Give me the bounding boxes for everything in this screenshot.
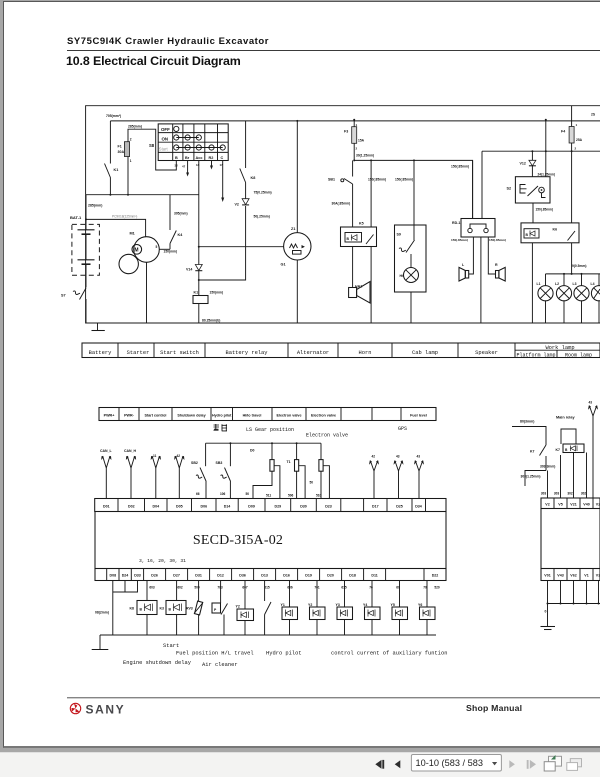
antenna 43 a (394, 455, 404, 499)
lamp L3 (573, 274, 590, 323)
svg-text:5: 5 (156, 245, 158, 249)
wire battery to starter (85, 212, 188, 237)
ground top section (92, 323, 105, 331)
switch box S2 (507, 177, 554, 223)
switch K1 (105, 121, 119, 195)
svg-text:D30: D30 (300, 505, 307, 509)
relay coil loop main relay (561, 429, 576, 444)
wire left return (95, 581, 138, 636)
solenoid Y3 (336, 581, 353, 636)
svg-text:30A(.85mm): 30A(.85mm) (332, 202, 351, 206)
svg-text:Shutdown delay: Shutdown delay (177, 413, 206, 417)
svg-text:C: C (221, 156, 224, 160)
svg-text:11: 11 (153, 454, 157, 458)
switch K8 (240, 121, 272, 195)
svg-text:285(mm): 285(mm) (88, 204, 102, 208)
antenna 11 (151, 454, 161, 499)
svg-text:Hydro pilot: Hydro pilot (266, 651, 302, 657)
solenoid Y6 (418, 581, 435, 636)
svg-text:K5: K5 (359, 222, 364, 226)
svg-text:15A: 15A (358, 139, 365, 143)
horn HA1 (349, 282, 370, 304)
svg-text:CAN_L: CAN_L (100, 449, 113, 453)
svg-text:Start control: Start control (145, 413, 167, 417)
svg-text:150(mm): 150(mm) (210, 291, 224, 295)
svg-text:CAN_H: CAN_H (124, 449, 137, 453)
solenoid Y4 (363, 581, 380, 636)
speaker R (488, 237, 506, 281)
svg-text:303: 303 (541, 492, 547, 496)
wire S8 C pin arrow (221, 161, 224, 203)
connector row top of SECD (95, 499, 446, 512)
wire horizontal 160 (353, 159, 472, 218)
svg-text:L4: L4 (591, 282, 595, 286)
relay K3 (160, 581, 187, 636)
svg-text:Cab lamp: Cab lamp (412, 350, 438, 356)
svg-text:Fuel level: Fuel level (410, 413, 427, 417)
starter motor M1 (119, 232, 177, 324)
svg-text:PWR-: PWR- (124, 413, 135, 417)
svg-text:K1: K1 (114, 168, 119, 172)
wire S8 Acc line (198, 161, 200, 265)
wire horizontal 151 (482, 150, 600, 152)
svg-text:V2: V2 (596, 503, 600, 507)
svg-text:D01: D01 (103, 505, 110, 509)
svg-text:D16: D16 (283, 574, 290, 578)
fuse F3 (344, 119, 374, 161)
resistor divider 3 (310, 443, 330, 498)
svg-text:Y1: Y1 (281, 603, 285, 607)
svg-text:RD-1: RD-1 (452, 221, 460, 225)
svg-text:V12: V12 (520, 162, 526, 166)
svg-text:SECD-3I5A-02: SECD-3I5A-02 (193, 533, 283, 548)
fuse F4 (561, 106, 596, 223)
svg-text:32: 32 (175, 164, 179, 168)
svg-text:3, 16, 20, 30, 31: 3, 16, 20, 30, 31 (139, 558, 186, 564)
svg-text:150(.85mm): 150(.85mm) (489, 238, 506, 242)
SANY logo emblem (70, 703, 80, 713)
svg-text:D26: D26 (151, 574, 158, 578)
svg-text:L: L (462, 263, 465, 267)
diode box K7 (556, 444, 585, 453)
svg-text:D24: D24 (122, 574, 129, 578)
wire S8 Br pin arrow (186, 161, 189, 177)
lamp L1 (537, 274, 554, 323)
svg-text:25A: 25A (576, 138, 583, 142)
svg-text:B: B (140, 608, 143, 612)
svg-text:30(1.25mm): 30(1.25mm) (356, 154, 374, 158)
node CJK quick-change label (214, 424, 228, 431)
svg-text:150(.85mm): 150(.85mm) (451, 165, 469, 169)
svg-text:43: 43 (417, 455, 421, 459)
svg-text:50: 50 (246, 492, 250, 496)
svg-text:24(1.25mm): 24(1.25mm) (538, 173, 556, 177)
antenna 42 (174, 454, 184, 499)
svg-text:305(mm): 305(mm) (174, 212, 188, 216)
svg-text:Y2: Y2 (236, 605, 240, 609)
diode V2 (235, 183, 270, 219)
svg-text:V40: V40 (583, 503, 589, 507)
svg-text:Start switch: Start switch (160, 350, 199, 356)
svg-text:Horn: Horn (359, 350, 372, 356)
svg-text:Y3: Y3 (336, 603, 340, 607)
svg-text:42: 42 (372, 455, 376, 459)
svg-text:D19: D19 (305, 574, 312, 578)
connector row bottom of V block (541, 569, 600, 581)
svg-text:K7: K7 (530, 450, 535, 454)
svg-text:S8: S8 (149, 143, 155, 148)
svg-text:V01: V01 (544, 574, 550, 578)
svg-text:Start: Start (159, 147, 169, 152)
svg-text:70: 70 (423, 586, 427, 590)
svg-text:D02: D02 (128, 505, 135, 509)
svg-text:V5: V5 (558, 503, 562, 507)
svg-text:43: 43 (396, 455, 400, 459)
node V pin numbers (541, 492, 587, 496)
wire 80(3mm) feed (512, 420, 546, 446)
svg-text:SB3: SB3 (216, 461, 223, 465)
svg-text:Hi/lo travel: Hi/lo travel (243, 413, 262, 417)
svg-text:Battery relay: Battery relay (225, 350, 268, 356)
svg-text:150(.85mm): 150(.85mm) (395, 178, 413, 182)
connector row top of V block (541, 498, 600, 509)
svg-text:OFF: OFF (161, 127, 170, 132)
controller V block (541, 509, 600, 569)
svg-text:0: 0 (545, 610, 547, 614)
svg-text:D20: D20 (327, 574, 334, 578)
svg-text:S2: S2 (507, 187, 512, 191)
svg-text:47: 47 (182, 165, 186, 169)
svg-text:S9: S9 (397, 233, 401, 237)
svg-text:Alternator: Alternator (297, 350, 329, 356)
switch hydro (265, 581, 271, 636)
node function strip (99, 408, 436, 421)
svg-text:B: B (347, 237, 350, 241)
svg-text:150(mm): 150(mm) (164, 250, 178, 254)
solenoid Y2b (308, 581, 325, 636)
svg-text:Air cleaner: Air cleaner (202, 662, 238, 668)
lamp L4 (591, 274, 600, 323)
svg-text:Starter: Starter (127, 350, 150, 356)
svg-text:D18: D18 (349, 574, 356, 578)
svg-text:L3: L3 (573, 282, 577, 286)
svg-text:30A: 30A (118, 150, 125, 154)
svg-text:10-10 (583 / 583: 10-10 (583 / 583 (416, 758, 483, 768)
svg-text:2S: 2S (591, 113, 596, 117)
svg-text:D23: D23 (325, 505, 332, 509)
svg-text:K6: K6 (553, 228, 558, 232)
svg-text:SB1: SB1 (328, 178, 335, 182)
controller SECD-3I5A-02 (95, 512, 446, 569)
ground bottom left (92, 635, 109, 650)
svg-text:D11: D11 (371, 574, 377, 578)
svg-text:B: B (169, 608, 172, 612)
svg-text:285(mm): 285(mm) (128, 125, 142, 129)
svg-text:P: P (214, 608, 217, 612)
svg-text:602: 602 (177, 586, 183, 590)
svg-text:150(.85mm): 150(.85mm) (536, 208, 554, 212)
pin number row (149, 586, 440, 590)
solenoid Y1 (281, 581, 298, 636)
svg-text:302: 302 (567, 492, 573, 496)
svg-text:50: 50 (310, 481, 314, 485)
svg-text:D17: D17 (372, 505, 379, 509)
svg-text:T1: T1 (287, 460, 291, 464)
svg-text:603: 603 (149, 586, 155, 590)
wire bus2 (110, 120, 600, 122)
svg-text:D0: D0 (250, 449, 255, 453)
svg-text:K8: K8 (130, 607, 135, 611)
svg-text:1: 1 (356, 123, 358, 127)
svg-text:SY75C9I4K Crawler Hydraulic Ex: SY75C9I4K Crawler Hydraulic Excavator (67, 36, 269, 47)
svg-text:80.25mm(b): 80.25mm(b) (202, 319, 220, 323)
svg-text:Main relay: Main relay (556, 416, 575, 420)
svg-text:106: 106 (220, 492, 226, 496)
svg-text:Electron valve: Electron valve (276, 413, 301, 417)
wire bottom bus (100, 634, 436, 636)
resistor RV3 (186, 581, 203, 636)
svg-text:B: B (526, 233, 529, 237)
svg-text:K8: K8 (251, 176, 256, 180)
relay K8 (130, 581, 158, 636)
svg-text:ON: ON (162, 137, 169, 142)
svg-text:Start: Start (163, 643, 179, 649)
svg-text:V43: V43 (557, 574, 563, 578)
svg-text:V3: V3 (596, 574, 600, 578)
svg-text:50(.25mm): 50(.25mm) (254, 215, 270, 219)
svg-text:Battery: Battery (89, 350, 112, 356)
svg-text:control current of auxiliary f: control current of auxiliary funtion (331, 651, 447, 657)
svg-text:V2: V2 (235, 203, 239, 207)
relay K5 (341, 160, 377, 323)
svg-text:R2: R2 (209, 156, 214, 160)
resistor divider 2 T1 (287, 443, 306, 498)
svg-text:PWR+: PWR+ (104, 413, 115, 417)
antenna CAN_L (100, 449, 113, 499)
battery BAT-1 (70, 195, 99, 288)
lamp L2 (555, 274, 572, 323)
speaker L (451, 237, 473, 281)
svg-text:F1: F1 (118, 145, 122, 149)
svg-text:D29: D29 (275, 505, 282, 509)
svg-text:1: 1 (130, 159, 132, 163)
svg-text:Acc: Acc (196, 156, 203, 160)
svg-text:2: 2 (356, 147, 358, 151)
svg-text:80(3mm): 80(3mm) (520, 420, 534, 424)
alternator G1 (199, 120, 311, 323)
svg-text:Z1: Z1 (291, 227, 295, 231)
svg-text:D12: D12 (217, 574, 224, 578)
svg-text:D25: D25 (396, 505, 403, 509)
svg-text:K3: K3 (160, 607, 165, 611)
svg-text:Engine shutdown delay: Engine shutdown delay (123, 660, 192, 666)
svg-text:B: B (565, 448, 568, 452)
svg-text:520: 520 (434, 586, 440, 590)
svg-text:F3: F3 (344, 130, 348, 134)
switch SB3 (216, 443, 231, 498)
svg-text:D33: D33 (134, 574, 141, 578)
svg-text:LS Gear position: LS Gear position (246, 427, 294, 433)
svg-text:Platform lamp: Platform lamp (516, 353, 555, 359)
svg-text:D14: D14 (224, 505, 231, 509)
svg-text:Shop Manual: Shop Manual (466, 703, 522, 713)
connector row bottom of SECD (95, 569, 446, 581)
svg-text:GPS: GPS (398, 426, 407, 432)
svg-text:705(mm²): 705(mm²) (106, 114, 121, 118)
wire top frame bus (86, 106, 600, 195)
svg-text:SANY: SANY (86, 703, 126, 717)
solenoid Y5 (391, 581, 408, 636)
svg-text:Y6: Y6 (418, 603, 422, 607)
ground bus bottom of top section (86, 195, 600, 323)
svg-text:SB2: SB2 (191, 461, 198, 465)
svg-text:Fuel position H/L travel: Fuel position H/L travel (176, 651, 254, 657)
switch SB2 (191, 443, 206, 498)
svg-text:303: 303 (554, 492, 560, 496)
wire V block returns (545, 581, 600, 627)
svg-text:08(2mm): 08(2mm) (95, 611, 109, 615)
svg-text:B: B (175, 156, 178, 160)
wire RD-1 to ground bus (480, 237, 482, 323)
svg-text:D06: D06 (201, 505, 208, 509)
svg-text:D08: D08 (110, 574, 117, 578)
switch K4 (170, 195, 183, 250)
antenna CAN_H (124, 449, 137, 499)
svg-text:K4: K4 (178, 233, 184, 237)
svg-text:302: 302 (581, 492, 587, 496)
svg-text:V62: V62 (570, 574, 576, 578)
svg-text:D05: D05 (176, 505, 183, 509)
wire 303 branch (521, 453, 587, 499)
diode V14 (186, 265, 202, 296)
svg-text:Hydro pilot: Hydro pilot (212, 413, 232, 417)
svg-text:F4: F4 (561, 130, 565, 134)
svg-text:D04: D04 (153, 505, 160, 509)
svg-text:S7: S7 (61, 294, 66, 298)
svg-text:66: 66 (196, 492, 200, 496)
start switch S8 table (149, 124, 228, 169)
svg-text:42: 42 (177, 454, 181, 458)
svg-text:9(0.5mm): 9(0.5mm) (572, 264, 586, 268)
svg-text:V1: V1 (584, 574, 588, 578)
svg-text:Work lamp: Work lamp (545, 345, 574, 351)
svg-text:M1: M1 (130, 232, 135, 236)
svg-text:Speaker: Speaker (475, 350, 498, 356)
svg-text:Electron valve: Electron valve (311, 413, 336, 417)
svg-text:D22: D22 (432, 574, 439, 578)
svg-text:2: 2 (575, 147, 577, 151)
svg-text:Electron valve: Electron valve (306, 432, 348, 438)
diode V12 (520, 151, 536, 177)
svg-text:R: R (495, 263, 498, 267)
svg-text:511: 511 (266, 494, 271, 498)
lamp H6 (400, 268, 419, 324)
node label table frame (82, 343, 600, 358)
svg-text:D27: D27 (173, 574, 180, 578)
work lamp bus (546, 264, 600, 275)
wire bus3 battery positive (86, 194, 199, 196)
svg-text:D09: D09 (248, 505, 255, 509)
solenoid Y2 (236, 581, 254, 636)
svg-text:75(0.25mm): 75(0.25mm) (254, 191, 272, 195)
fuse F1 (118, 125, 177, 195)
wire S2 feed (538, 119, 556, 177)
svg-text:Br: Br (185, 156, 190, 160)
antenna 43 b (414, 455, 424, 499)
toolbar controls (375, 760, 400, 769)
svg-text:L1: L1 (537, 282, 541, 286)
switch K7 (530, 445, 555, 471)
pressure switch P (212, 581, 228, 636)
ground V block (541, 627, 556, 630)
svg-text:10.8 Electrical Circuit Diagr: 10.8 Electrical Circuit Diagram (66, 54, 241, 68)
svg-text:615: 615 (264, 586, 270, 590)
wire V2 branch joining (198, 206, 246, 281)
svg-text:K1: K1 (194, 291, 199, 295)
svg-text:Y5: Y5 (391, 603, 395, 607)
wire S8 R2 pin arrow (210, 161, 213, 170)
antenna 42 right (369, 455, 379, 499)
svg-text:43: 43 (589, 401, 593, 405)
svg-text:V21: V21 (570, 503, 576, 507)
svg-text:2: 2 (130, 138, 132, 142)
svg-text:D34: D34 (415, 505, 422, 509)
svg-text:K7: K7 (556, 448, 561, 452)
switch S7 (61, 288, 86, 323)
svg-text:D31: D31 (195, 574, 202, 578)
svg-text:BAT-1: BAT-1 (70, 215, 82, 220)
svg-text:510: 510 (316, 494, 322, 498)
svg-text:606: 606 (287, 586, 293, 590)
svg-text:RV3: RV3 (186, 607, 193, 611)
resistor divider 1 (246, 443, 280, 498)
switch box S9 (395, 160, 427, 292)
resistor block RD-1 (452, 151, 495, 237)
svg-text:703: 703 (217, 586, 223, 590)
relay coil K1 (193, 291, 223, 324)
switch SB1 (328, 160, 413, 227)
svg-text:303(1.25mm): 303(1.25mm) (521, 475, 541, 479)
svg-text:V14: V14 (186, 268, 192, 272)
svg-text:G1: G1 (281, 263, 286, 267)
svg-text:PC9018(125mm²): PC9018(125mm²) (112, 215, 137, 219)
svg-text:D36: D36 (239, 574, 246, 578)
svg-text:V2: V2 (545, 503, 549, 507)
svg-text:506: 506 (288, 494, 294, 498)
svg-text:Y2: Y2 (308, 603, 312, 607)
wire D0 bus (206, 442, 321, 452)
svg-text:D13: D13 (261, 574, 268, 578)
svg-text:1: 1 (576, 123, 578, 127)
svg-text:Y4: Y4 (363, 603, 367, 607)
svg-text:L2: L2 (555, 282, 559, 286)
svg-text:150(.85mm): 150(.85mm) (451, 238, 468, 242)
antenna 43 right edge (588, 401, 598, 499)
svg-text:303(3mm): 303(3mm) (540, 465, 555, 469)
svg-text:Room lamp: Room lamp (565, 353, 592, 359)
relay K6 (521, 223, 579, 323)
svg-text:M: M (134, 248, 138, 254)
